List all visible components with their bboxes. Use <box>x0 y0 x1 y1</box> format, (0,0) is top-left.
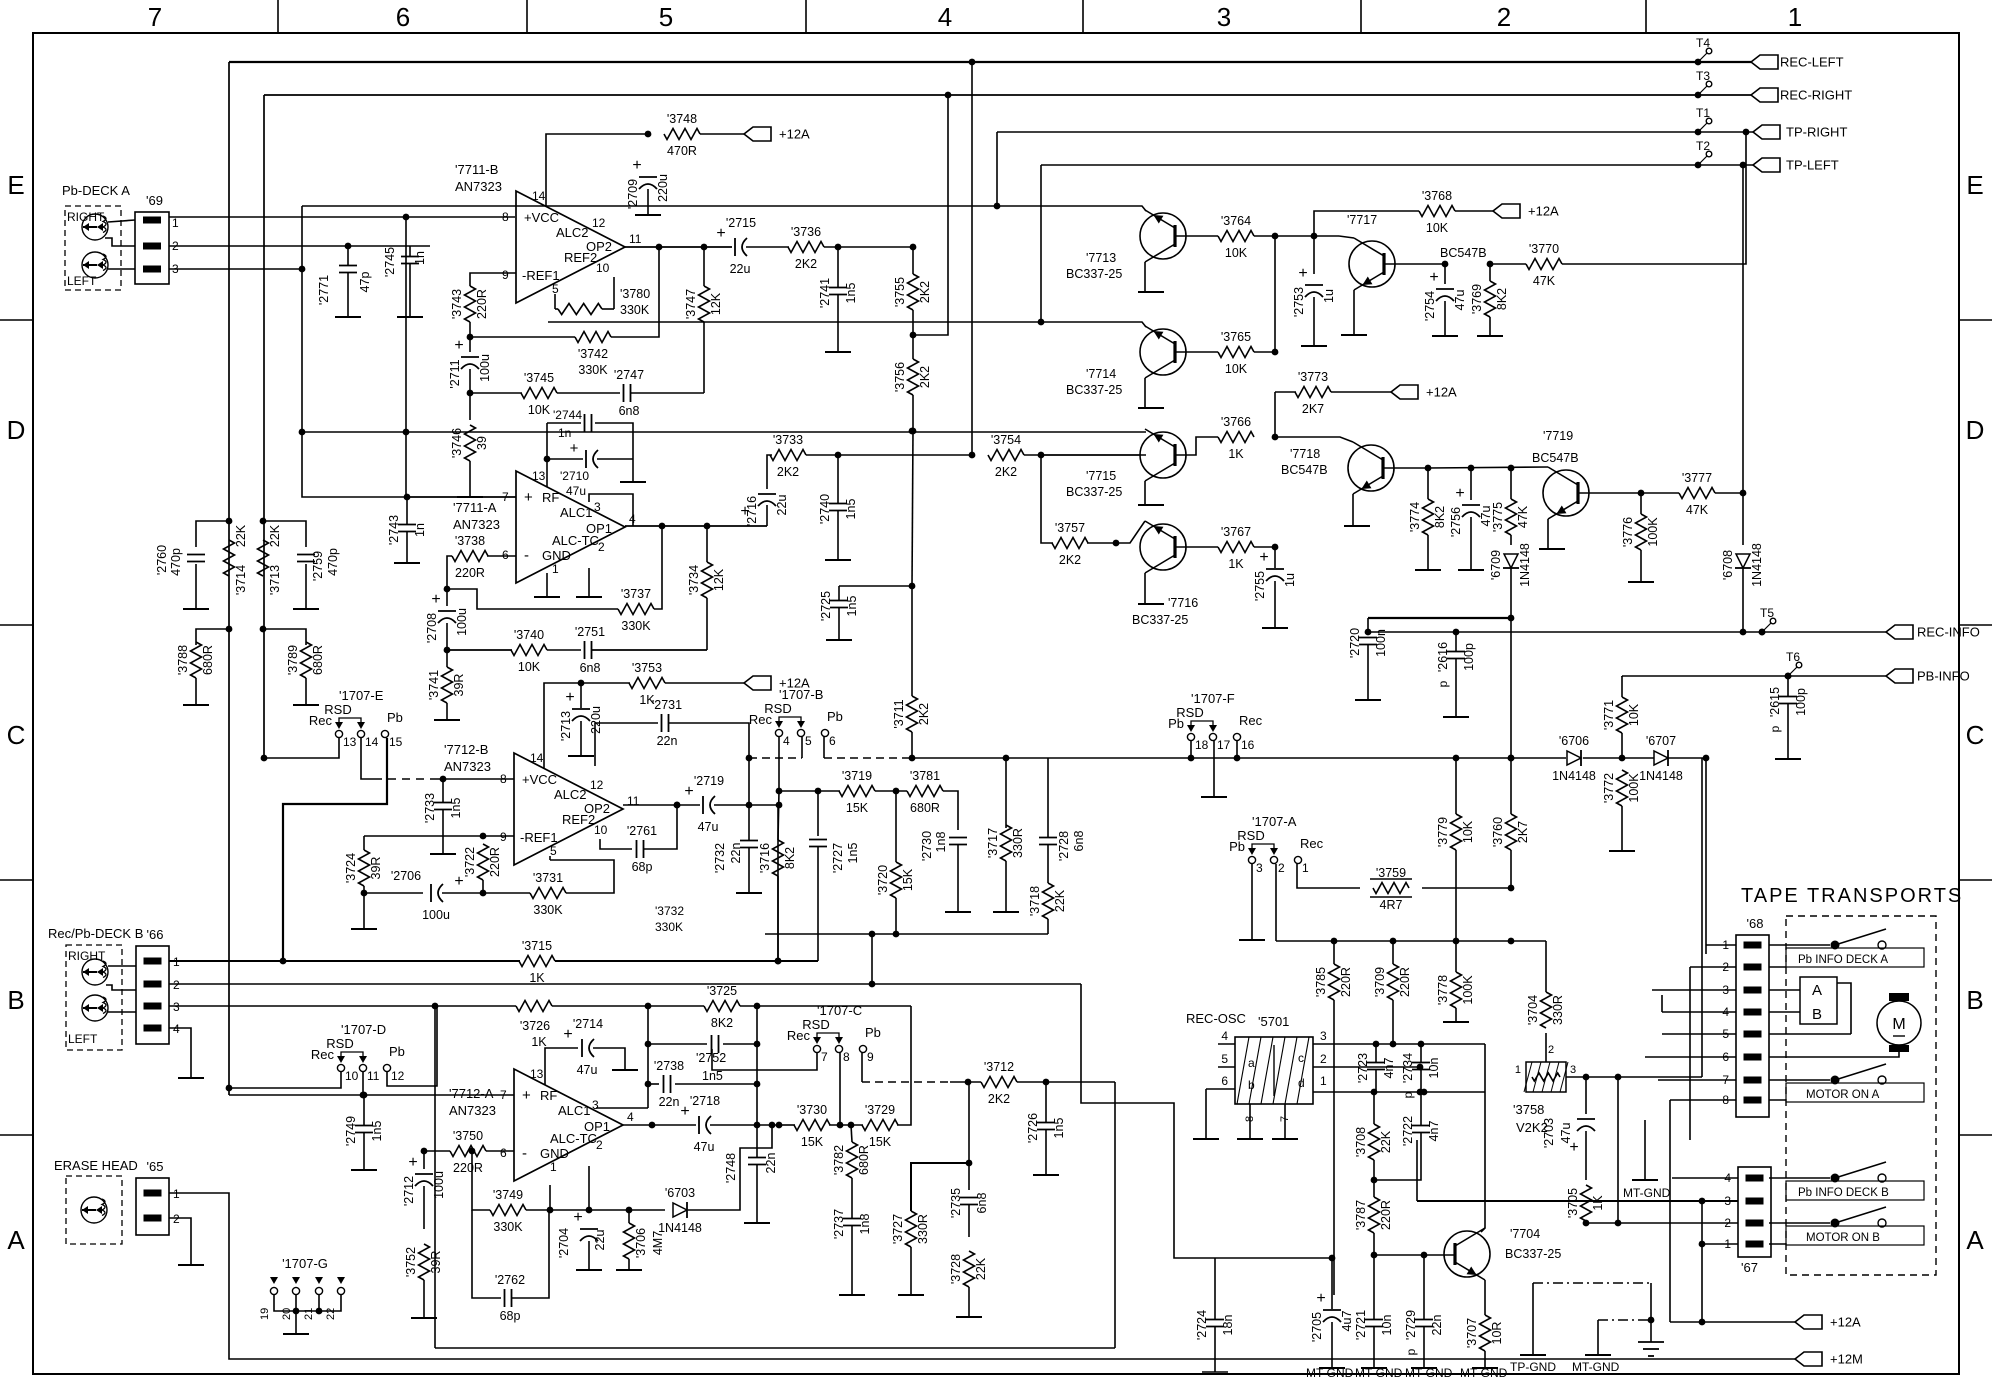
wire 3782b <box>851 1178 853 1218</box>
dot 2761 <box>674 802 681 809</box>
dot 1041 322 <box>1038 319 1045 326</box>
wire +12M bottom <box>1670 1358 1795 1360</box>
svg-text:D: D <box>1966 415 1985 445</box>
svg-text:6n8: 6n8 <box>580 661 601 675</box>
svg-text:4: 4 <box>627 1110 634 1124</box>
wire 3776a <box>1640 493 1642 514</box>
svg-text:47p: 47p <box>358 272 372 293</box>
resistor '3709 <box>1388 964 1399 1000</box>
wire 2733a <box>442 779 444 802</box>
wire 3771a <box>1621 676 1623 697</box>
diode '6708 <box>1736 554 1750 568</box>
capacitor '2710 <box>585 450 587 468</box>
svg-text:'2761: '2761 <box>627 824 657 838</box>
wire 2715 right <box>746 246 789 248</box>
svg-text:T5: T5 <box>1760 606 1774 620</box>
dot out 779 <box>776 1122 783 1129</box>
dot pin10 <box>226 1085 233 1092</box>
svg-text:'3753: '3753 <box>632 661 662 675</box>
wire 2730b <box>957 845 959 912</box>
svg-text:68p: 68p <box>632 860 653 874</box>
svg-text:470p: 470p <box>326 548 340 576</box>
svg-text:1n5: 1n5 <box>370 1121 384 1142</box>
wire 2706 left <box>364 892 423 894</box>
svg-text:REF2: REF2 <box>564 250 597 265</box>
svg-text:18: 18 <box>1195 738 1209 752</box>
wire 7712B +in2 <box>438 778 514 780</box>
wire 3737 route <box>447 589 618 609</box>
resistor '3772 <box>1617 770 1628 806</box>
svg-text:ERASE HEAD: ERASE HEAD <box>54 1158 138 1173</box>
dot 3756 bottom <box>910 428 917 435</box>
svg-text:Rec: Rec <box>311 1047 335 1062</box>
svg-text:'3747: '3747 <box>684 289 698 319</box>
wire B3 b <box>435 1005 516 1007</box>
wire pin13 7711A <box>546 423 548 487</box>
svg-text:'3755: '3755 <box>893 277 907 307</box>
wire x1115 <box>1114 1082 1116 1348</box>
dot 3708 <box>1371 1177 1378 1184</box>
svg-text:BC547B: BC547B <box>1281 463 1328 477</box>
svg-text:+: + <box>570 440 579 457</box>
capacitor '2714 <box>581 1039 583 1057</box>
svg-text:+: + <box>1316 1290 1325 1307</box>
resistor '3742 <box>575 332 611 343</box>
capacitor '2760 <box>187 554 205 556</box>
svg-text:330K: 330K <box>621 619 651 633</box>
svg-text:8K2: 8K2 <box>711 1016 733 1030</box>
svg-text:MT-GND: MT-GND <box>1460 1366 1508 1378</box>
svg-text:22K: 22K <box>974 1257 988 1280</box>
dots pb-info <box>1785 673 1792 680</box>
svg-text:17: 17 <box>1217 738 1231 752</box>
svg-text:100K: 100K <box>1646 517 1660 547</box>
svg-text:3: 3 <box>592 1098 599 1112</box>
wire 3755 tap <box>913 95 948 335</box>
tbar 3769 <box>1477 335 1503 337</box>
wire 5701 pin2 <box>1313 1066 1420 1068</box>
wire 2728a <box>1047 845 1049 883</box>
svg-text:'2704: '2704 <box>557 1228 571 1258</box>
resistor '3756 <box>908 359 919 395</box>
wire B1 b <box>555 960 818 962</box>
wire pin10 7712B <box>600 839 632 849</box>
svg-text:+: + <box>1455 485 1464 502</box>
wire y1348 <box>435 1347 1115 1349</box>
wire pin5 7712B <box>549 856 551 860</box>
wire tp-right drop <box>996 132 998 206</box>
svg-text:'2741: '2741 <box>818 278 832 308</box>
svg-text:'68: '68 <box>1747 916 1764 931</box>
dot y432 302 <box>299 429 306 436</box>
dots 3749 <box>469 1148 476 1155</box>
wire 1743 up <box>1742 165 1744 493</box>
wire 3745 row <box>470 392 522 394</box>
svg-text:1: 1 <box>172 216 179 230</box>
capacitor '2718 <box>698 1116 700 1134</box>
svg-text:100u: 100u <box>422 908 450 922</box>
svg-text:T4: T4 <box>1696 36 1710 50</box>
svg-text:10K: 10K <box>518 660 541 674</box>
wire 3770 right <box>1562 132 1746 264</box>
wire pin10 7711B <box>613 277 615 309</box>
wire pin5 7711B <box>554 294 556 309</box>
resistor '3779 <box>1451 814 1462 850</box>
wire node x302 <box>302 206 516 497</box>
svg-text:'2749: '2749 <box>344 1116 358 1146</box>
wire erase pin2 <box>169 1218 191 1265</box>
svg-text:39R: 39R <box>452 674 466 697</box>
wire y758 mid <box>824 757 912 759</box>
wire 2721a <box>1373 1255 1375 1319</box>
svg-text:'3772: '3772 <box>1602 773 1616 803</box>
wire 2727b <box>817 847 819 961</box>
wire '69 pin2 <box>169 245 430 247</box>
svg-text:'3741: '3741 <box>427 670 441 700</box>
svg-text:220u: 220u <box>656 174 670 202</box>
wire 1707E pin14 <box>361 738 374 779</box>
wire 2740b <box>837 511 839 560</box>
resistor '3712 <box>981 1077 1017 1088</box>
wire 2732b <box>748 848 750 893</box>
tbar 2726 <box>1033 1174 1059 1176</box>
wire 2722a <box>1420 1092 1422 1125</box>
junction dot pin3 <box>299 266 306 273</box>
wire 3787b <box>1373 1233 1375 1255</box>
resistor '3722 <box>478 844 489 880</box>
svg-text:BC547B: BC547B <box>1532 451 1579 465</box>
svg-text:T3: T3 <box>1696 69 1710 83</box>
capacitor '2703 <box>1577 1118 1595 1120</box>
dot 1702 1322 <box>1699 1319 1706 1326</box>
wire 3770 left <box>1490 263 1526 265</box>
wire 3752b <box>423 1280 425 1318</box>
svg-text:A: A <box>1812 982 1822 999</box>
svg-text:1: 1 <box>173 1187 180 1201</box>
svg-text:15: 15 <box>389 735 403 749</box>
wire REC-RIGHT bus <box>264 94 1751 96</box>
svg-text:+VCC: +VCC <box>522 772 557 787</box>
wire 67 pin3 <box>1417 1200 1738 1202</box>
resistor '3741 <box>442 667 453 703</box>
resistor '3760 <box>1506 814 1517 850</box>
svg-text:'3720: '3720 <box>876 865 890 895</box>
wire 2738 right <box>675 1083 757 1085</box>
svg-text:-REF1: -REF1 <box>520 830 558 845</box>
svg-text:ALC-TC: ALC-TC <box>552 533 599 548</box>
dot 2711 bottom <box>467 390 474 397</box>
wire 2713b <box>580 721 582 756</box>
wire 6708 b <box>1742 568 1744 632</box>
svg-text:'2760: '2760 <box>155 545 169 575</box>
capacitor '2721 <box>1365 1319 1383 1321</box>
resistor '3785 <box>1329 964 1340 1000</box>
svg-text:ALC2: ALC2 <box>556 225 589 240</box>
wire 2729a <box>1423 1255 1425 1319</box>
tbar mt-gnd <box>1585 1354 1611 1356</box>
svg-text:1N4148: 1N4148 <box>1518 543 1532 587</box>
wire TP-RIGHT bus <box>997 131 1753 133</box>
wire 3760b <box>1510 850 1512 888</box>
svg-text:3: 3 <box>1217 2 1231 32</box>
svg-text:12: 12 <box>590 778 604 792</box>
svg-text:1n5: 1n5 <box>846 843 860 864</box>
wire 2704b <box>588 1241 590 1270</box>
svg-text:6: 6 <box>500 1146 507 1160</box>
wire 3748 to flag <box>700 133 744 135</box>
wire cap 2745 b <box>409 264 411 317</box>
wire 2710 right <box>597 458 633 460</box>
tbar 2730 <box>945 911 971 913</box>
svg-text:4: 4 <box>783 734 790 748</box>
wire 67 pin1 <box>1702 1243 1738 1245</box>
wire 3775a <box>1510 468 1512 499</box>
transistor '7713 <box>1140 213 1186 259</box>
svg-text:'2720: '2720 <box>1348 628 1362 658</box>
capacitor '2720 <box>1359 637 1377 639</box>
tbar 7719 <box>1539 548 1565 550</box>
svg-text:1K: 1K <box>1591 1195 1605 1211</box>
svg-text:10K: 10K <box>528 403 551 417</box>
dot 3705 <box>1583 1220 1590 1227</box>
svg-text:2K2: 2K2 <box>795 257 817 271</box>
wire 2712b <box>423 1186 425 1229</box>
capacitor '2726 <box>1037 1122 1055 1124</box>
wire 2762 right <box>512 1210 549 1298</box>
wire 3716b <box>777 876 779 961</box>
svg-text:330K: 330K <box>655 920 683 934</box>
tbar 2771 <box>335 316 361 318</box>
resistor '3733 <box>770 450 806 461</box>
svg-text:'2710: '2710 <box>560 469 589 483</box>
wire 7719 base <box>1578 492 1641 494</box>
svg-text:1n5: 1n5 <box>1052 1118 1066 1139</box>
wire B1 <box>169 960 520 962</box>
svg-text:2: 2 <box>596 1138 603 1152</box>
capacitor '2732 <box>740 840 758 842</box>
tbar 3778 <box>1443 1021 1469 1023</box>
capacitor '2719 <box>702 796 704 814</box>
wire 7718 coll <box>1275 437 1353 442</box>
svg-text:'3745: '3745 <box>524 371 554 385</box>
svg-text:220R: 220R <box>455 566 485 580</box>
dot 3711 bottom <box>909 755 916 762</box>
wire 3706b <box>628 1259 630 1270</box>
resistor '3705 <box>1581 1185 1592 1221</box>
svg-text:100u: 100u <box>478 354 492 382</box>
svg-text:2K2: 2K2 <box>918 281 932 303</box>
svg-text:Pb: Pb <box>389 1044 405 1059</box>
wire head B left <box>108 1011 136 1013</box>
svg-text:'3709: '3709 <box>1373 967 1387 997</box>
wire 3740 row <box>447 649 512 651</box>
dot B3 c <box>645 1003 652 1010</box>
wire 1707C pin8 <box>839 1053 841 1125</box>
wire 3768 feed <box>1314 211 1419 236</box>
flag +12A top <box>744 127 771 141</box>
svg-text:6: 6 <box>1221 1074 1228 1088</box>
wire 6703 row <box>629 1209 665 1211</box>
svg-text:1K: 1K <box>1228 557 1244 571</box>
dashed box tape transports <box>1786 916 1936 1275</box>
svg-text:p: p <box>1404 1348 1418 1355</box>
resistor '3775 <box>1506 499 1517 535</box>
svg-text:100p: 100p <box>1794 688 1808 716</box>
wire 2743b <box>406 532 408 563</box>
svg-text:Pb: Pb <box>827 709 843 724</box>
svg-text:100K: 100K <box>1627 773 1641 803</box>
wire 3731 right <box>550 860 614 893</box>
capacitor '2748 <box>748 1157 766 1159</box>
svg-text:'2714: '2714 <box>573 1017 603 1031</box>
resistor '3718 <box>1043 883 1054 919</box>
svg-text:d: d <box>1298 1076 1305 1090</box>
svg-text:4u7: 4u7 <box>1340 1311 1354 1332</box>
svg-text:330K: 330K <box>533 903 563 917</box>
svg-text:20: 20 <box>281 1308 293 1320</box>
wire 2714 right <box>593 1048 625 1070</box>
capacitor '2722 <box>1412 1125 1430 1127</box>
svg-text:+: + <box>565 689 574 706</box>
wire v2k2 pin2 <box>1545 1033 1547 1062</box>
svg-text:100p: 100p <box>1462 643 1476 671</box>
tbar 3776 <box>1628 581 1654 583</box>
tbar 2759 <box>293 608 319 610</box>
dot 3776 <box>1638 490 1645 497</box>
svg-text:REC-OSC: REC-OSC <box>1186 1011 1246 1026</box>
svg-text:6: 6 <box>502 548 509 562</box>
resistor '3728 <box>964 1251 975 1287</box>
svg-text:'3758: '3758 <box>1513 1102 1544 1117</box>
wire 3788 b <box>195 678 197 705</box>
svg-text:BC547B: BC547B <box>1440 246 1487 260</box>
dot 3727 <box>966 1160 973 1167</box>
transistor '7718 <box>1348 445 1394 491</box>
tbar 3706 <box>616 1269 642 1271</box>
tbar 2709 <box>635 214 661 216</box>
wire 2719 right <box>714 804 779 806</box>
wire 3754 down <box>1041 455 1053 543</box>
svg-text:'2715: '2715 <box>726 216 756 230</box>
svg-text:Rec: Rec <box>1239 713 1263 728</box>
wire 2729b <box>1423 1327 1425 1368</box>
wire mt-gnd link <box>1598 1319 1651 1321</box>
resistor '3714 <box>224 540 235 576</box>
wire 2761 right <box>644 805 677 849</box>
svg-text:2K2: 2K2 <box>995 465 1017 479</box>
wire REC-INFO <box>1368 631 1886 633</box>
dots out 7711B <box>656 244 663 251</box>
tbar 2616 <box>1443 716 1469 718</box>
dot earth <box>1648 1317 1655 1324</box>
tbar B4 <box>178 1077 204 1079</box>
wire 3727b <box>910 1247 912 1295</box>
svg-text:22u: 22u <box>593 1230 607 1251</box>
svg-text:'2771: '2771 <box>317 275 331 305</box>
dots 5701 p3 <box>1373 1041 1380 1048</box>
tbar 2745 <box>397 316 423 318</box>
dots 1707F <box>1188 755 1195 762</box>
wire 3789 b <box>305 678 307 705</box>
wire head A mid <box>105 238 135 246</box>
svg-text:+: + <box>716 225 725 242</box>
wire 68 pin2 R <box>1769 966 1786 968</box>
flag TP-LEFT <box>1753 158 1780 172</box>
wire 3727 top <box>911 1163 969 1211</box>
wire 2737b <box>851 1226 853 1295</box>
svg-text:47u: 47u <box>566 484 586 498</box>
svg-text:5: 5 <box>805 734 812 748</box>
svg-text:1: 1 <box>1788 2 1802 32</box>
wire x1670 <box>1669 1100 1671 1322</box>
resistor '3717 <box>1001 825 1012 861</box>
svg-text:BC337-25: BC337-25 <box>1132 613 1188 627</box>
capacitor '2740 <box>829 503 847 505</box>
wire 2705a <box>1331 1258 1333 1309</box>
wire 2713a <box>580 683 582 708</box>
svg-text:GND: GND <box>540 1146 569 1161</box>
capacitor '2731 <box>661 714 663 732</box>
REC-OSC block '5701 <box>1235 1037 1313 1104</box>
svg-text:15K: 15K <box>901 868 915 891</box>
dot 2705 <box>1329 1255 1336 1262</box>
flag +12A bottom <box>1795 1315 1822 1329</box>
wire 3740-2751 <box>547 649 581 651</box>
svg-text:100u: 100u <box>455 608 469 636</box>
svg-text:47K: 47K <box>1533 274 1556 288</box>
svg-text:1n5: 1n5 <box>702 1069 723 1083</box>
svg-text:+: + <box>522 1087 531 1104</box>
head erase <box>81 1197 107 1223</box>
svg-text:2: 2 <box>1724 1216 1731 1230</box>
dot pin11 <box>360 1092 367 1099</box>
tbar 2756 <box>1458 569 1484 571</box>
tbar 2755 <box>1262 627 1288 629</box>
svg-text:Pb: Pb <box>1168 716 1184 731</box>
svg-text:2K2: 2K2 <box>918 366 932 388</box>
svg-text:+: + <box>680 1103 689 1120</box>
svg-text:'2719: '2719 <box>694 774 724 788</box>
wire pin9 7712B <box>483 835 514 837</box>
svg-text:'3705: '3705 <box>1566 1188 1580 1218</box>
svg-text:22: 22 <box>325 1308 337 1320</box>
capacitor '2753 <box>1305 284 1323 286</box>
svg-text:3: 3 <box>1320 1029 1327 1043</box>
svg-text:330K: 330K <box>578 363 608 377</box>
svg-text:'5701: '5701 <box>1258 1014 1289 1029</box>
svg-text:TAPE TRANSPORTS: TAPE TRANSPORTS <box>1741 885 1963 907</box>
resistor '3724 <box>359 850 370 886</box>
svg-text:4n7: 4n7 <box>1427 1121 1441 1142</box>
svg-text:'2708: '2708 <box>425 613 439 643</box>
svg-text:220R: 220R <box>488 847 502 877</box>
wire '69 pin1 to +VCC <box>169 216 515 218</box>
resistor '3789 <box>301 642 312 678</box>
dot 2706 <box>480 890 487 897</box>
wire 3708a <box>1373 1092 1375 1124</box>
svg-text:'3771: '3771 <box>1602 700 1616 730</box>
svg-text:2: 2 <box>1320 1052 1327 1066</box>
svg-text:330K: 330K <box>493 1220 523 1234</box>
wire 68 pin3 L <box>1652 989 1736 991</box>
varistor '3758 V2K2 <box>1526 1062 1566 1092</box>
dot 2709 <box>645 131 652 138</box>
wire 2744 top <box>547 422 581 424</box>
wire 2759 branch <box>263 521 306 547</box>
transistor '7704 <box>1444 1231 1490 1277</box>
svg-text:'2712: '2712 <box>402 1176 416 1206</box>
wire pin12 7712B <box>595 723 658 766</box>
